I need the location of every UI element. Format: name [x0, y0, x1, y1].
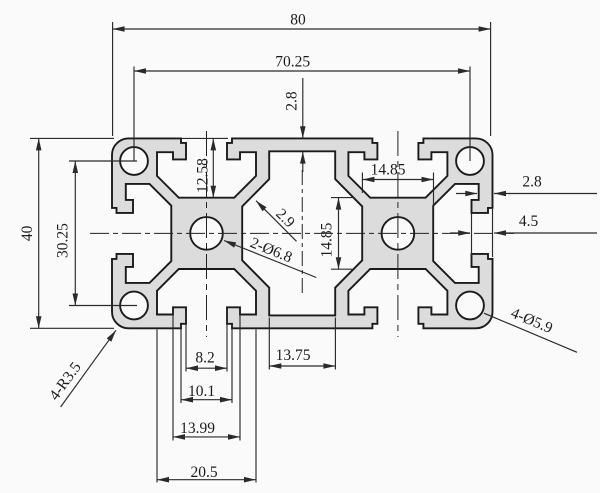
svg-text:8.2: 8.2	[195, 350, 214, 367]
vertical centerline right block	[397, 131, 399, 337]
svg-text:12.58: 12.58	[195, 158, 212, 193]
horizontal centerline	[90, 232, 514, 234]
dim 40 extension lines	[30, 138, 114, 328]
dim 14.85 center line	[338, 198, 340, 270]
svg-text:40: 40	[19, 225, 36, 241]
svg-text:20.5: 20.5	[190, 464, 217, 481]
dim 12.58 surface extension	[182, 137, 228, 139]
dim 14.85 center extension lines	[331, 198, 354, 270]
dim 10.1 extension lines	[181, 325, 232, 403]
dim 20.5 extension lines	[157, 330, 256, 483]
dim 30.25 line	[74, 161, 76, 306]
leader 4-R3.5	[61, 330, 116, 407]
dim 10.1 line	[181, 399, 232, 401]
vertical centerline left block	[206, 131, 208, 337]
arrowheads	[113, 26, 125, 32]
svg-text:10.1: 10.1	[188, 383, 215, 400]
dim 70.25 extension lines	[134, 67, 470, 162]
vertical centerline middle	[301, 170, 303, 296]
corner hole bottom-right	[456, 292, 484, 320]
svg-text:14.85: 14.85	[319, 222, 336, 257]
svg-text:2.8: 2.8	[284, 91, 301, 111]
corner hole top-right	[456, 147, 484, 175]
dim 13.99 extension lines	[173, 309, 240, 441]
dim 13.75 extension lines	[269, 318, 335, 370]
dim 20.5 line	[157, 479, 256, 481]
center hole left	[190, 217, 223, 250]
dim 8.2 line	[186, 367, 227, 369]
svg-text:80: 80	[290, 12, 306, 29]
leader 2-diam6.8	[224, 241, 316, 278]
leader 4-diam5.9	[484, 313, 577, 352]
dim 80 line	[113, 28, 491, 30]
dim 14.85 top extension lines	[362, 173, 433, 210]
dim 2.8 right lines	[456, 193, 597, 195]
svg-text:70.25: 70.25	[275, 54, 310, 71]
dim 13.99 line	[173, 436, 240, 438]
dim 13.75 line	[269, 365, 335, 367]
aluminium profile cross-section body	[112, 138, 493, 328]
corner hole top-left	[120, 147, 148, 175]
dim 4.5 right lines	[450, 232, 597, 234]
svg-text:13.75: 13.75	[276, 347, 311, 364]
leader 2.9	[256, 201, 297, 242]
svg-text:4.5: 4.5	[519, 213, 539, 230]
dim 2.8 top leader	[302, 78, 304, 172]
dim 4.5 extension lines	[472, 209, 493, 257]
dim 14.85 top line	[362, 179, 433, 181]
dim 80 extension lines	[113, 22, 491, 136]
svg-text:30.25: 30.25	[55, 223, 72, 258]
dim 30.25 extension lines	[69, 161, 137, 306]
svg-text:14.85: 14.85	[371, 162, 406, 179]
dim 12.58 line	[212, 138, 214, 197]
dim 8.2 extension lines	[186, 310, 227, 372]
dim 70.25 line	[134, 70, 470, 72]
corner hole bottom-left	[120, 292, 148, 320]
dim 40 line	[38, 138, 40, 328]
svg-text:2.8: 2.8	[522, 174, 542, 191]
svg-text:13.99: 13.99	[180, 420, 215, 437]
center hole right	[382, 217, 415, 250]
